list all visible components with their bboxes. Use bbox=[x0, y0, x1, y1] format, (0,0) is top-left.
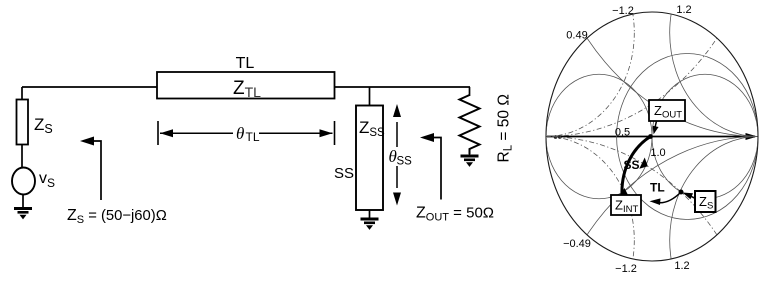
theta SS arrow down bbox=[396, 166, 398, 188]
svg-text:vS: vS bbox=[39, 170, 55, 190]
wire: stub to ground bbox=[369, 210, 371, 218]
svg-text:0.5: 0.5 bbox=[615, 127, 630, 139]
svg-text:TL: TL bbox=[236, 55, 255, 72]
b=-1.2 arc bbox=[458, 137, 635, 286]
svg-text:SS: SS bbox=[624, 158, 640, 172]
ZS box arrow bbox=[689, 195, 696, 199]
SS path arrowhead mid bbox=[639, 158, 648, 169]
dimension tick left bbox=[157, 121, 159, 145]
svg-text:1.2: 1.2 bbox=[676, 4, 691, 16]
svg-text:SS: SS bbox=[334, 165, 354, 182]
wire: TL right to load corner bbox=[334, 86, 470, 88]
stub SS bbox=[356, 106, 383, 211]
b=+0.49 arc bbox=[330, 0, 763, 137]
r=0.5 circle bbox=[617, 54, 758, 220]
ZOUT box bbox=[649, 100, 685, 121]
resistor RL bbox=[460, 95, 480, 154]
svg-text:1.0: 1.0 bbox=[650, 147, 665, 159]
dimension arrow left bbox=[160, 132, 233, 134]
axis arrow right bbox=[746, 133, 758, 140]
axis dot 2 bbox=[558, 135, 562, 139]
TL curve arrow bbox=[654, 192, 681, 203]
ZINT box bbox=[611, 195, 641, 215]
g=1.0 circle bbox=[546, 74, 652, 199]
svg-text:0.49: 0.49 bbox=[566, 30, 587, 42]
ground (load) bbox=[469, 149, 471, 155]
ZS box bbox=[695, 191, 716, 212]
svg-text:−0.49: −0.49 bbox=[563, 238, 591, 250]
wire: source to ground bbox=[22, 195, 24, 208]
SS path arrowhead end bbox=[619, 188, 629, 197]
theta SS arrow up bbox=[396, 122, 398, 147]
svg-text:−1.2: −1.2 bbox=[612, 5, 634, 17]
ground (stub) bbox=[361, 218, 379, 230]
center dot bbox=[648, 134, 653, 139]
svg-text:−1.2: −1.2 bbox=[615, 263, 637, 275]
x=+1.2 arc bbox=[670, 0, 765, 137]
wire: source top to TL left bbox=[22, 86, 157, 88]
ZOUT value arrow bbox=[427, 138, 441, 200]
wire: ZS to source bbox=[21, 145, 23, 169]
axis dot 1 bbox=[554, 135, 558, 139]
svg-text:RL = 50 Ω: RL = 50 Ω bbox=[496, 94, 515, 162]
svg-text:1.2: 1.2 bbox=[674, 260, 689, 272]
svg-text:TL: TL bbox=[650, 181, 665, 195]
x=-0.49 arc bbox=[542, 137, 765, 286]
svg-text:ZS = (50−j60)Ω: ZS = (50−j60)Ω bbox=[67, 207, 167, 226]
dimension arrow right bbox=[259, 132, 333, 134]
wire: ZS top bbox=[21, 87, 23, 100]
svg-text:ZOUT = 50Ω: ZOUT = 50Ω bbox=[416, 205, 494, 224]
svg-text:SS: SS bbox=[397, 156, 413, 168]
SS path (thick arc) bbox=[622, 137, 651, 195]
outer circle bbox=[546, 12, 758, 261]
wire: corner down to resistor RL bbox=[469, 87, 471, 96]
svg-text:θ: θ bbox=[236, 124, 244, 143]
horizontal axis bbox=[547, 136, 755, 138]
svg-text:ZS: ZS bbox=[34, 115, 53, 136]
wire: junction down to stub bbox=[369, 87, 371, 106]
ZS value arrow bbox=[85, 141, 101, 200]
ZOUT box arrow bbox=[655, 121, 657, 128]
transmission line TL bbox=[157, 72, 335, 99]
voltage source vS bbox=[12, 168, 35, 195]
impedance ZS bbox=[17, 100, 29, 145]
b=-0.49 arc bbox=[330, 137, 763, 286]
dimension tick right bbox=[334, 121, 336, 145]
b=+1.2 arc bbox=[458, 0, 635, 137]
svg-text:TL: TL bbox=[246, 130, 260, 144]
x=-1.2 arc bbox=[670, 137, 765, 286]
r=1.0 circle bbox=[652, 74, 758, 199]
ground (source) bbox=[14, 207, 32, 219]
x=+0.49 arc bbox=[542, 0, 765, 137]
ZS dot bbox=[679, 190, 684, 195]
